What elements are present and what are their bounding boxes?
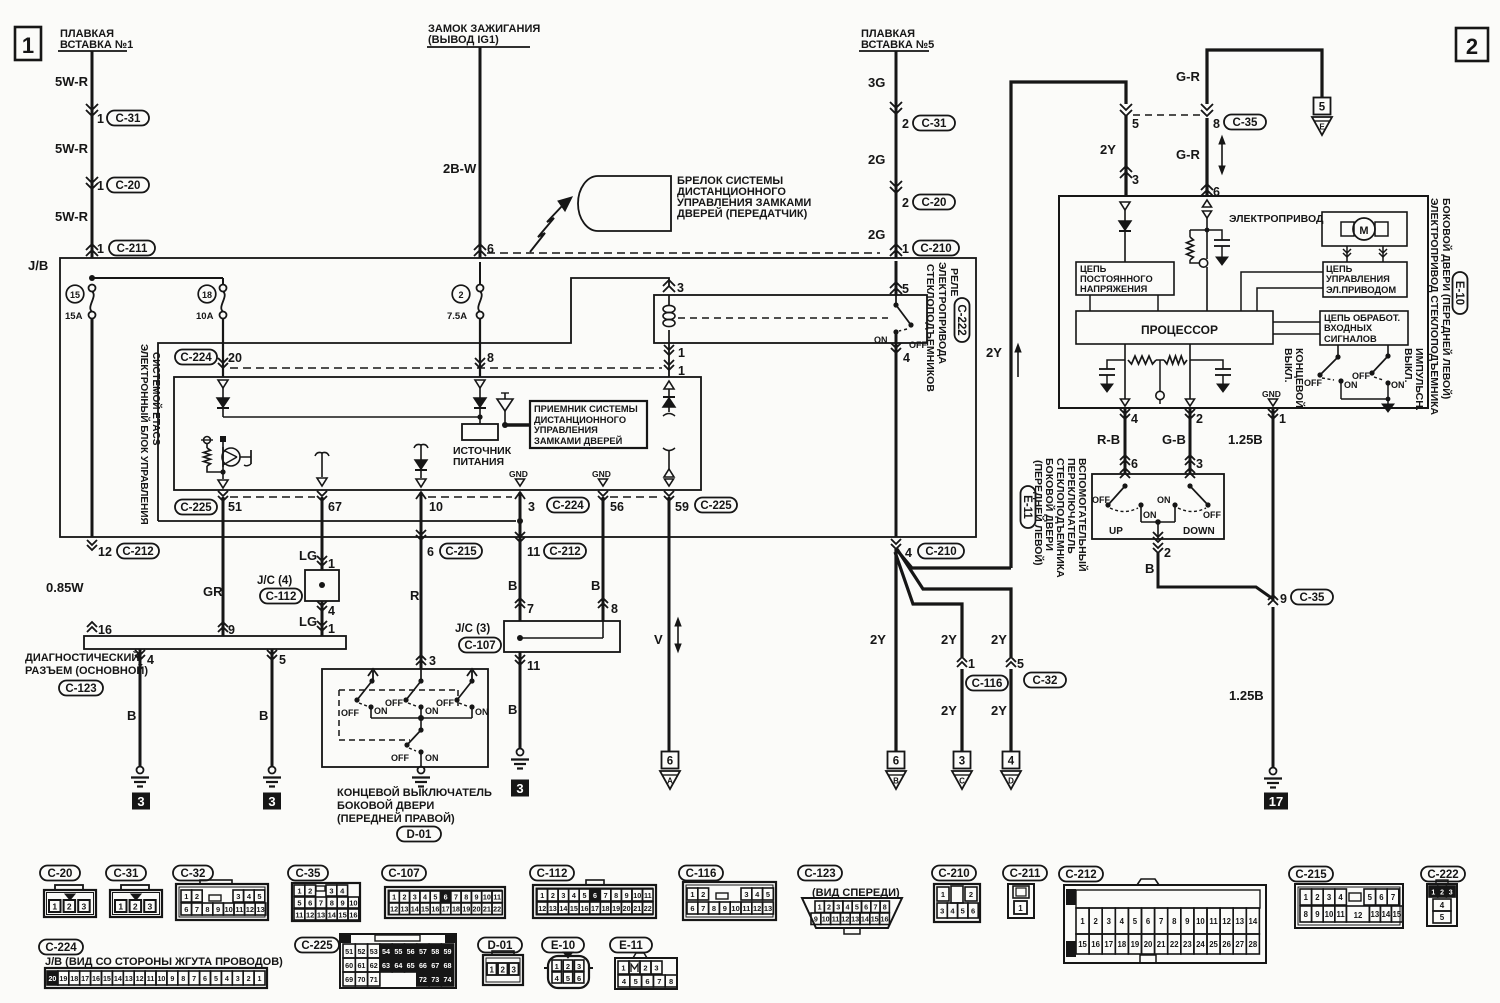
- svg-text:5: 5: [961, 906, 965, 915]
- terminal box 4 D: [1003, 752, 1020, 769]
- svg-text:1: 1: [52, 902, 57, 912]
- diode D3 ETACS: [415, 460, 427, 469]
- svg-text:1: 1: [118, 902, 123, 912]
- svg-text:57: 57: [419, 947, 427, 956]
- svg-text:56: 56: [407, 947, 415, 956]
- svg-text:J/C (4): J/C (4): [257, 575, 292, 587]
- svg-text:2G: 2G: [868, 227, 885, 242]
- svg-text:12: 12: [98, 545, 112, 559]
- svg-text:C-35: C-35: [1300, 592, 1326, 604]
- svg-text:6: 6: [593, 891, 597, 900]
- svg-text:9: 9: [723, 904, 727, 913]
- wire fuse2 down to ETACS pin 8: [479, 318, 481, 377]
- svg-text:22: 22: [493, 905, 501, 914]
- svg-text:8: 8: [1213, 117, 1220, 131]
- ground terminal E triangle: [1312, 117, 1332, 135]
- svg-text:OFF: OFF: [391, 753, 409, 763]
- svg-text:7: 7: [454, 893, 458, 902]
- wire 67 down to J/C4: [321, 497, 324, 570]
- svg-text:R: R: [410, 588, 420, 603]
- node 6 C-215: [416, 530, 426, 535]
- radio wave arrow to fob: [530, 205, 563, 252]
- svg-text:70: 70: [357, 975, 365, 984]
- svg-text:12: 12: [538, 904, 546, 913]
- svg-text:11: 11: [742, 904, 750, 913]
- svg-text:61: 61: [357, 961, 365, 970]
- svg-text:8: 8: [669, 977, 673, 986]
- svg-text:13: 13: [1371, 910, 1380, 919]
- svg-text:4: 4: [147, 653, 154, 667]
- svg-text:13: 13: [549, 904, 557, 913]
- svg-text:3: 3: [413, 893, 417, 902]
- svg-text:G-R: G-R: [1176, 147, 1200, 162]
- wire 1.25B lower: [1272, 607, 1275, 768]
- fan wire to C-116 leg: [895, 552, 962, 657]
- switch contact pin 10: [414, 444, 421, 448]
- svg-text:2: 2: [827, 903, 831, 912]
- svg-text:C-215: C-215: [1295, 869, 1327, 881]
- connector diagram C-32: [173, 866, 213, 881]
- svg-text:5: 5: [214, 974, 218, 983]
- svg-text:12: 12: [390, 905, 398, 914]
- svg-text:66: 66: [419, 961, 427, 970]
- connector oval E-10: [1453, 272, 1468, 314]
- svg-text:9: 9: [1185, 917, 1190, 926]
- wire 1.25B upper: [1272, 408, 1275, 600]
- svg-text:18: 18: [602, 904, 610, 913]
- svg-text:12: 12: [753, 904, 761, 913]
- fan wire to 2Y riser: [896, 549, 1011, 568]
- svg-text:7: 7: [604, 891, 608, 900]
- svg-text:16: 16: [580, 904, 588, 913]
- svg-text:8: 8: [464, 893, 468, 902]
- node 1 relay to ETACS: [664, 345, 674, 350]
- svg-text:2: 2: [195, 892, 199, 901]
- svg-text:ON: ON: [1344, 380, 1358, 390]
- links processor to input box: [1273, 321, 1320, 323]
- svg-text:OFF: OFF: [436, 698, 454, 708]
- fuse 2 link: [479, 262, 481, 285]
- svg-text:8: 8: [1304, 910, 1309, 919]
- resistor divider: [1190, 229, 1207, 231]
- svg-text:C-112: C-112: [537, 868, 568, 880]
- relay switch: [895, 295, 897, 305]
- node 59 C-225: [664, 491, 674, 496]
- wire pin3 gnd down: [519, 492, 522, 621]
- pulse switch: [1387, 345, 1389, 356]
- svg-text:R-B: R-B: [1097, 432, 1120, 447]
- svg-text:4: 4: [328, 604, 335, 618]
- RC network under processor: [1124, 344, 1126, 399]
- svg-text:5: 5: [297, 898, 301, 907]
- ETACS case ground junction: [517, 518, 523, 524]
- svg-text:15: 15: [70, 290, 80, 300]
- ground marker 3: [132, 793, 150, 810]
- switch contact pin 67: [315, 452, 322, 456]
- svg-text:C-107: C-107: [464, 640, 495, 652]
- svg-text:C-222: C-222: [1427, 869, 1458, 881]
- node 4 diag: [135, 650, 145, 655]
- svg-text:8: 8: [205, 905, 209, 914]
- door switch contact 3: [471, 671, 473, 681]
- svg-text:10: 10: [1325, 910, 1334, 919]
- svg-text:11: 11: [147, 974, 155, 983]
- svg-text:C-211: C-211: [1010, 868, 1041, 880]
- aux switch right: [1185, 473, 1195, 478]
- svg-text:12: 12: [1222, 917, 1231, 926]
- svg-text:15: 15: [421, 905, 429, 914]
- svg-text:ПОСТОЯННОГО: ПОСТОЯННОГО: [1080, 274, 1153, 284]
- drive control box: [1323, 262, 1407, 297]
- wire fusible link No5 down: [895, 51, 898, 258]
- svg-text:51: 51: [345, 947, 353, 956]
- page marker 1: [15, 27, 41, 60]
- connector diagram C-225: [295, 938, 339, 953]
- svg-text:4: 4: [1440, 901, 1445, 910]
- svg-text:4: 4: [1120, 917, 1125, 926]
- wire fuse15 to C-212 exit: [91, 318, 94, 537]
- node 9 C-35: [1268, 600, 1278, 605]
- aux switch E-11 box: [1092, 474, 1224, 539]
- svg-text:A: A: [667, 777, 673, 786]
- fan wire to C-32 leg: [897, 549, 1011, 657]
- svg-text:5: 5: [1133, 917, 1138, 926]
- svg-text:3: 3: [744, 890, 748, 899]
- svg-text:OFF: OFF: [1203, 510, 1221, 520]
- svg-text:19: 19: [612, 904, 620, 913]
- links processor to drive control: [1241, 272, 1323, 311]
- svg-text:БОКОВОЙ ДВЕРИ (ПЕРЕДНЕЙ ЛЕВОЙ): БОКОВОЙ ДВЕРИ (ПЕРЕДНЕЙ ЛЕВОЙ): [1440, 198, 1453, 399]
- svg-text:8: 8: [330, 898, 334, 907]
- svg-text:1: 1: [258, 974, 262, 983]
- svg-text:4: 4: [423, 893, 427, 902]
- connector diagram C-222: [1421, 867, 1465, 882]
- svg-text:1: 1: [1018, 904, 1023, 913]
- node 1 C-116: [957, 662, 967, 667]
- svg-text:1: 1: [902, 242, 909, 256]
- svg-text:14: 14: [411, 905, 419, 914]
- transistor key circuit: [220, 436, 226, 442]
- svg-text:ДИСТАНЦИОННОГО: ДИСТАНЦИОННОГО: [534, 415, 626, 425]
- node 6 E-11: [1120, 460, 1130, 465]
- svg-text:ПИТАНИЯ: ПИТАНИЯ: [453, 456, 504, 468]
- svg-text:10: 10: [157, 974, 165, 983]
- svg-text:15: 15: [338, 910, 346, 919]
- svg-text:3: 3: [511, 966, 516, 975]
- node 1 diag: [317, 621, 327, 626]
- node 10: [420, 494, 422, 521]
- svg-text:B: B: [508, 702, 517, 717]
- svg-text:68: 68: [444, 961, 452, 970]
- svg-text:73: 73: [431, 975, 439, 984]
- wire LG to diag pin 1: [321, 601, 324, 636]
- svg-text:5: 5: [582, 891, 586, 900]
- svg-text:18: 18: [1118, 940, 1127, 949]
- wire 2Y to terminal B: [894, 549, 897, 752]
- node 2 C-31: [890, 102, 902, 108]
- ETACS inner box: [174, 377, 701, 490]
- ETACS outer outline to relay coil: [158, 278, 669, 521]
- svg-text:ON: ON: [425, 753, 439, 763]
- svg-text:5: 5: [766, 890, 770, 899]
- svg-text:C-211: C-211: [117, 243, 148, 255]
- svg-text:СТЕКЛОПОДЪЕМНИКОВ: СТЕКЛОПОДЪЕМНИКОВ: [924, 264, 936, 392]
- capacitor: [1207, 230, 1222, 240]
- connector diagram C-107: [382, 866, 426, 881]
- svg-text:13: 13: [125, 974, 133, 983]
- svg-text:1: 1: [328, 557, 335, 571]
- wire fusible link No1 down: [91, 51, 94, 258]
- svg-text:15A: 15A: [65, 311, 83, 322]
- svg-text:3: 3: [561, 891, 565, 900]
- svg-text:C-212: C-212: [1065, 869, 1096, 881]
- svg-text:14: 14: [861, 915, 869, 924]
- svg-text:B: B: [591, 578, 600, 593]
- svg-text:5: 5: [257, 892, 261, 901]
- terminal box 6 A: [662, 752, 679, 769]
- svg-text:J/C (3): J/C (3): [455, 623, 490, 635]
- svg-text:18: 18: [452, 905, 460, 914]
- node circle: [1199, 259, 1207, 267]
- svg-text:3: 3: [654, 963, 658, 972]
- svg-text:10: 10: [731, 904, 739, 913]
- svg-text:25: 25: [1209, 940, 1218, 949]
- diode D1 ETACS: [222, 388, 224, 398]
- capacitor C1: [1107, 360, 1125, 369]
- svg-text:9: 9: [341, 898, 345, 907]
- svg-text:5: 5: [433, 893, 437, 902]
- svg-text:16: 16: [881, 915, 889, 924]
- connector diagram C-35: [288, 866, 328, 881]
- ground marker 3: [263, 793, 281, 810]
- svg-text:6: 6: [308, 898, 312, 907]
- svg-text:19: 19: [59, 974, 67, 983]
- svg-text:10A: 10A: [196, 311, 214, 322]
- svg-text:22: 22: [644, 904, 652, 913]
- wire B from E-11 to C-35: [1158, 553, 1273, 599]
- svg-text:19: 19: [1131, 940, 1140, 949]
- wire pin6 net: [1206, 217, 1208, 259]
- node 8 C-35: [1201, 104, 1213, 110]
- svg-text:2: 2: [1315, 893, 1320, 902]
- svg-text:C-224: C-224: [552, 500, 584, 512]
- svg-text:11: 11: [1336, 910, 1345, 919]
- svg-text:OFF: OFF: [341, 708, 359, 718]
- node 11 C-212: [515, 532, 525, 537]
- receiver box: [530, 401, 647, 448]
- svg-text:3: 3: [137, 794, 144, 809]
- svg-text:4: 4: [905, 546, 912, 560]
- wire 2Y to terminal D: [1009, 669, 1012, 752]
- page marker 2: [1456, 28, 1488, 61]
- svg-text:3: 3: [1196, 457, 1203, 471]
- svg-text:6: 6: [427, 545, 434, 559]
- input signal box: [1320, 311, 1408, 345]
- svg-text:52: 52: [357, 947, 365, 956]
- svg-text:C-212: C-212: [122, 546, 153, 558]
- svg-text:C-123: C-123: [65, 683, 96, 695]
- svg-text:DOWN: DOWN: [1183, 526, 1215, 537]
- node 12 C-212: [87, 540, 97, 545]
- svg-text:6: 6: [1131, 457, 1138, 471]
- svg-text:6: 6: [203, 974, 207, 983]
- svg-text:6: 6: [893, 756, 899, 768]
- wire B to ground 3: [271, 649, 274, 767]
- svg-text:6: 6: [864, 903, 868, 912]
- svg-text:1: 1: [1279, 412, 1286, 426]
- svg-text:8: 8: [712, 904, 716, 913]
- svg-text:69: 69: [345, 975, 353, 984]
- svg-text:3: 3: [236, 892, 240, 901]
- svg-text:C-107: C-107: [388, 868, 419, 880]
- svg-text:B: B: [508, 578, 517, 593]
- svg-text:(ВЫВОД IG1): (ВЫВОД IG1): [428, 34, 499, 46]
- svg-text:18: 18: [202, 290, 212, 300]
- switch ground: [1341, 398, 1388, 400]
- wire 2Y to terminal C: [960, 669, 963, 752]
- svg-text:14: 14: [1382, 910, 1391, 919]
- resistor R1: [1128, 356, 1156, 364]
- wire G-R to ground terminal: [1207, 50, 1322, 104]
- svg-text:V: V: [654, 632, 663, 647]
- ground 17: [1270, 768, 1277, 775]
- svg-text:2: 2: [1093, 917, 1098, 926]
- svg-text:OFF: OFF: [385, 698, 403, 708]
- svg-text:5: 5: [634, 977, 638, 986]
- svg-text:15: 15: [570, 904, 578, 913]
- svg-text:1: 1: [392, 893, 396, 902]
- svg-text:2: 2: [1196, 412, 1203, 426]
- dashed relay actuation link: [678, 317, 888, 319]
- connector diagram C-20: [40, 866, 80, 881]
- node 56: [598, 491, 608, 496]
- svg-text:1: 1: [1080, 917, 1085, 926]
- svg-text:2Y: 2Y: [941, 703, 957, 718]
- svg-text:1: 1: [489, 966, 494, 975]
- direction arrow on V wire: [677, 622, 679, 648]
- svg-text:ВСТАВКА №1: ВСТАВКА №1: [60, 39, 133, 51]
- dashed connector row C-211/C-210: [487, 252, 880, 254]
- svg-text:ПРИЕМНИК СИСТЕМЫ: ПРИЕМНИК СИСТЕМЫ: [534, 404, 638, 414]
- svg-text:1: 1: [97, 112, 104, 126]
- svg-text:17: 17: [1269, 794, 1283, 809]
- links CV to processor: [1089, 295, 1091, 311]
- svg-text:7: 7: [195, 905, 199, 914]
- svg-text:3: 3: [577, 962, 581, 971]
- svg-text:БОКОВОЙ ДВЕРИ: БОКОВОЙ ДВЕРИ: [337, 799, 434, 812]
- svg-text:64: 64: [394, 961, 402, 970]
- wire 51 down to diagnostic pin 9: [222, 497, 225, 636]
- junction block J/B outline: [60, 258, 976, 537]
- svg-text:3: 3: [1449, 889, 1453, 896]
- svg-text:J/B (ВИД СО СТОРОНЫ ЖГУТА ПРОВ: J/B (ВИД СО СТОРОНЫ ЖГУТА ПРОВОДОВ): [45, 956, 283, 968]
- svg-text:16: 16: [349, 910, 357, 919]
- svg-text:15: 15: [871, 915, 879, 924]
- node 8 C-224: [475, 358, 485, 363]
- svg-text:0.85W: 0.85W: [46, 580, 84, 595]
- node 16 diag: [87, 627, 97, 632]
- svg-text:E-11: E-11: [1021, 495, 1033, 519]
- svg-text:C-32: C-32: [181, 868, 206, 880]
- node 4 E-10: [1120, 409, 1130, 414]
- node 4 J/C4: [317, 601, 327, 606]
- svg-text:13: 13: [1235, 917, 1244, 926]
- svg-text:C-224: C-224: [180, 352, 212, 364]
- svg-text:2: 2: [500, 966, 505, 975]
- svg-text:5: 5: [1368, 893, 1373, 902]
- door switch bus: [371, 717, 472, 719]
- svg-text:C-35: C-35: [296, 868, 322, 880]
- svg-text:ON: ON: [1157, 495, 1171, 505]
- svg-text:20: 20: [473, 905, 481, 914]
- svg-text:СИСТЕМОЙ ETACS: СИСТЕМОЙ ETACS: [150, 352, 163, 446]
- svg-text:11: 11: [527, 545, 540, 559]
- svg-text:20: 20: [48, 974, 56, 983]
- svg-text:4: 4: [846, 903, 850, 912]
- svg-text:3: 3: [1327, 893, 1332, 902]
- terminal box 5: [1314, 98, 1331, 115]
- svg-text:2: 2: [701, 890, 705, 899]
- svg-text:C-31: C-31: [116, 113, 142, 125]
- terminal box 6 B: [888, 752, 905, 769]
- svg-text:C-123: C-123: [804, 868, 835, 880]
- motor wires: [1346, 246, 1348, 262]
- svg-text:3: 3: [528, 500, 535, 514]
- svg-text:(ПЕРЕДНЕЙ ПРАВОЙ): (ПЕРЕДНЕЙ ПРАВОЙ): [337, 812, 455, 825]
- svg-text:14: 14: [114, 974, 122, 983]
- svg-text:LG: LG: [299, 548, 317, 563]
- node 51 C-225: [175, 500, 217, 515]
- svg-text:2: 2: [308, 886, 312, 895]
- svg-text:2: 2: [566, 962, 570, 971]
- power source box: [462, 424, 498, 440]
- svg-text:1: 1: [22, 33, 34, 58]
- svg-text:2: 2: [247, 974, 251, 983]
- svg-text:1: 1: [97, 242, 104, 256]
- svg-text:8: 8: [487, 351, 494, 365]
- svg-text:7: 7: [1391, 893, 1395, 902]
- svg-text:5W-R: 5W-R: [55, 74, 89, 89]
- svg-text:16: 16: [431, 905, 439, 914]
- svg-text:2: 2: [1164, 546, 1171, 560]
- svg-text:2: 2: [133, 902, 138, 912]
- door switch case ground: [418, 767, 425, 774]
- svg-text:6: 6: [971, 906, 975, 915]
- svg-text:15: 15: [1393, 910, 1402, 919]
- svg-text:C-31: C-31: [114, 868, 140, 880]
- svg-text:GND: GND: [592, 469, 611, 479]
- svg-text:D: D: [1008, 777, 1014, 786]
- wire 2Y down to E-10 pin 3: [1124, 115, 1127, 196]
- svg-text:9: 9: [216, 905, 220, 914]
- svg-text:13: 13: [317, 910, 325, 919]
- svg-text:G-R: G-R: [1176, 69, 1200, 84]
- svg-text:B: B: [1145, 561, 1154, 576]
- svg-text:56: 56: [610, 500, 624, 514]
- svg-text:2: 2: [551, 891, 555, 900]
- connector diagram E-10: [542, 938, 584, 953]
- antenna symbol: [497, 399, 513, 411]
- svg-text:17: 17: [442, 905, 450, 914]
- svg-text:13: 13: [851, 915, 859, 924]
- svg-text:51: 51: [228, 500, 242, 514]
- svg-text:C-20: C-20: [48, 868, 73, 880]
- door switch contact 1: [372, 671, 374, 681]
- svg-text:3: 3: [959, 756, 965, 768]
- svg-text:2: 2: [969, 890, 973, 899]
- svg-text:9: 9: [475, 893, 479, 902]
- svg-text:3: 3: [429, 654, 436, 668]
